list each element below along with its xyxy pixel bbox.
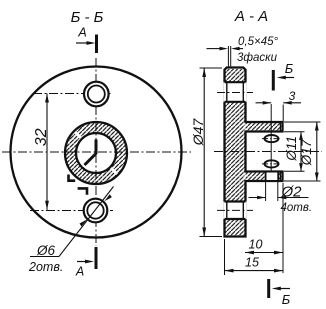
- Ø11 arrowheads: [299, 132, 303, 140]
- dimension 10 extension line right (hub end): [282, 183, 284, 273]
- Ø2 arrowheads: [257, 196, 266, 200]
- cutting plane A top arrow: [76, 42, 88, 44]
- svg-text:0,5×45°: 0,5×45°: [238, 36, 278, 48]
- svg-text:А: А: [75, 265, 84, 279]
- dimension 32 top arrowhead: [45, 94, 49, 103]
- dimension 32 bottom arrowhead: [45, 201, 49, 210]
- flange hatch bottom band: [226, 219, 245, 236]
- Ø6 leader arrowhead lower: [80, 220, 88, 227]
- top hole chamfer circle: [88, 86, 105, 103]
- Ø2 dimension line left part: [249, 197, 266, 199]
- bottom Ø6 hole in flange: [223, 202, 246, 220]
- cutting plane A bottom arrow: [77, 261, 88, 263]
- top Ø6 hole in flange: [223, 82, 246, 102]
- svg-text:2отв.: 2отв.: [28, 260, 63, 274]
- vertical centerline of left view: [95, 58, 97, 246]
- flange outline: [225, 68, 283, 237]
- axis centerline of right view: [214, 151, 322, 153]
- svg-text:Ø47: Ø47: [190, 118, 206, 147]
- svg-text:А - А: А - А: [234, 8, 268, 25]
- bottom hole Ø6 outer circle: [84, 199, 108, 223]
- cutting plane Б top tick: [272, 70, 275, 91]
- dimension 10 line: [245, 252, 283, 254]
- cutting plane A bottom tick: [95, 247, 98, 269]
- section trace step mark L2: [78, 188, 87, 194]
- hub outer circle Ø17: [65, 122, 127, 184]
- flange hatch middle band: [226, 102, 245, 202]
- Ø11 dimension line: [300, 132, 302, 172]
- horizontal centerline of left view: [2, 151, 191, 153]
- bottom hole chamfer walls: [227, 202, 244, 220]
- svg-text:4отв.: 4отв.: [281, 202, 313, 214]
- flange hatch top band: [226, 69, 245, 82]
- svg-text:Б - Б: Б - Б: [71, 9, 104, 26]
- flange outer circle Ø47: [11, 67, 182, 238]
- Ø2 hole slot in bottom hub wall: [266, 173, 277, 181]
- dimension 3 extension line (hub end): [282, 105, 284, 122]
- top hole centerline: [217, 92, 253, 94]
- Ø17 dimension line: [316, 122, 318, 181]
- svg-text:Б: Б: [282, 292, 291, 307]
- hub wall hatch bottom left: [246, 173, 266, 181]
- cutting plane Б bottom tick: [267, 279, 270, 298]
- dimension 3 arrowheads: [263, 101, 272, 105]
- top hole Ø6 outer circle: [84, 82, 109, 107]
- Ø6 label shelf: [30, 256, 59, 258]
- section trace step mark L1: [69, 175, 76, 181]
- Ø2 hole lower (on bore surface): [265, 160, 279, 167]
- hub wall hatch top: [246, 123, 282, 131]
- dimension 15 arrowheads: [225, 269, 234, 273]
- chamfer dimension arrows: [207, 48, 222, 50]
- svg-text:15: 15: [245, 255, 259, 269]
- dimension 15 extension line left: [224, 239, 226, 275]
- dimension 10 arrowheads: [245, 251, 254, 255]
- Ø2 hole upper (on bore surface): [265, 135, 279, 142]
- section trace bend mark vertical (hand): [95, 140, 98, 155]
- dimension 3 line right part: [283, 102, 301, 104]
- hub wall hatch bottom right: [279, 173, 283, 181]
- bottom hole centerline: [217, 209, 253, 211]
- cutting plane A top tick: [95, 35, 98, 54]
- Ø2 dimension extension lines: [266, 181, 278, 201]
- Ø47 dimension line: [203, 68, 205, 237]
- dimension 3 line left part: [256, 102, 272, 104]
- hatch gap band upper-left: [73, 130, 84, 141]
- svg-text:32: 32: [33, 128, 50, 146]
- dimension 32 line: [46, 94, 48, 210]
- svg-text:Ø2: Ø2: [281, 184, 303, 201]
- Ø47 dimension extension lines: [200, 68, 223, 237]
- svg-text:Б: Б: [285, 61, 294, 76]
- Ø47 arrowheads: [202, 68, 206, 77]
- hub bore circle Ø11: [76, 133, 116, 173]
- svg-text:А: А: [77, 26, 86, 40]
- hub hatched ring: [65, 122, 127, 184]
- section trace bend mark diagonal (hand): [85, 154, 97, 166]
- Ø6 leader line: [59, 187, 114, 257]
- chamfer dimension extension lines: [228, 46, 230, 67]
- hatch gap band lower-right: [109, 166, 120, 177]
- svg-text:3: 3: [289, 89, 296, 103]
- Ø2 holes axis extension line: [270, 104, 272, 171]
- cutting plane Б top arrow: [283, 77, 294, 79]
- bottom hole chamfer circle: [87, 202, 103, 218]
- top hole centerline: [33, 93, 113, 95]
- cutting plane Б bottom arrow: [278, 288, 290, 290]
- Ø2 dimension line right part (shelf): [278, 197, 309, 199]
- bottom hole centerline: [30, 210, 113, 212]
- svg-text:3фаски: 3фаски: [237, 52, 278, 64]
- svg-text:Ø17: Ø17: [299, 139, 314, 166]
- dimension 15 line: [225, 270, 284, 272]
- Ø17 dimension extension lines: [284, 122, 321, 181]
- top hole chamfer walls: [227, 82, 244, 102]
- Ø17 arrowheads: [315, 122, 319, 131]
- Ø6 leader arrowhead upper: [104, 194, 112, 201]
- svg-text:10: 10: [249, 237, 263, 251]
- svg-text:Ø11: Ø11: [284, 136, 299, 162]
- svg-text:Ø6: Ø6: [36, 243, 56, 258]
- Ø11 dimension extension lines: [284, 132, 305, 172]
- hub end chamfer lines: [279, 123, 281, 180]
